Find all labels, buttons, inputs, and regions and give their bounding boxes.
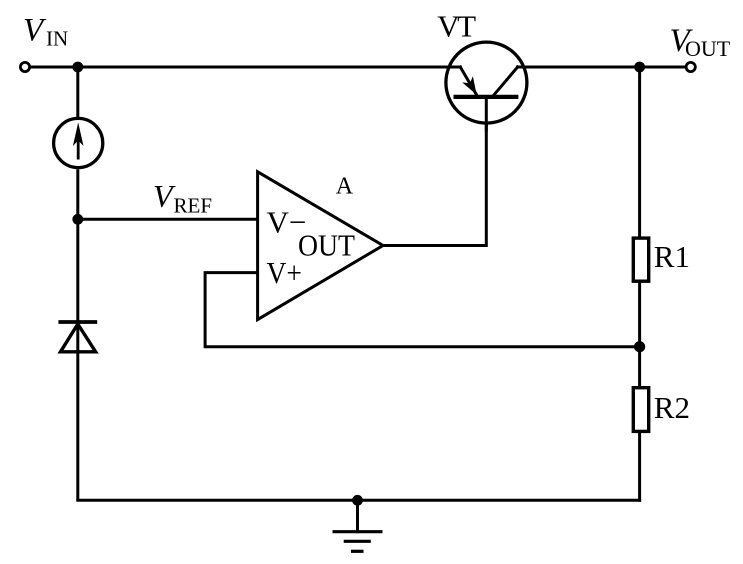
svg-text:OUT: OUT [685, 36, 731, 61]
svg-text:VT: VT [437, 9, 476, 44]
svg-text:R2: R2 [654, 390, 690, 425]
svg-text:V+: V+ [267, 255, 303, 290]
svg-text:R1: R1 [654, 239, 690, 274]
svg-text:A: A [336, 174, 354, 200]
svg-text:REF: REF [174, 193, 213, 217]
svg-text:IN: IN [46, 26, 68, 50]
svg-text:OUT: OUT [298, 227, 355, 262]
